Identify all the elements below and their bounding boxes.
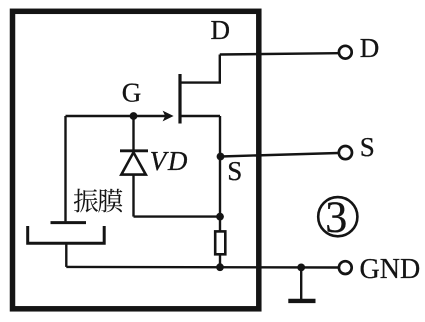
- node: S junction: [217, 153, 225, 161]
- svg-text:D: D: [360, 33, 380, 63]
- wire: source vertical rail: [219, 116, 221, 232]
- ground symbol stem: [300, 267, 302, 299]
- label: VD (diode designator): [150, 146, 189, 176]
- svg-text:G: G: [122, 78, 142, 108]
- diode VD cathode bar: [120, 149, 148, 152]
- label: S (source node, inside case): [227, 156, 242, 186]
- wire: drain tap up to D lead: [181, 55, 220, 83]
- terminal D circle: [339, 46, 352, 59]
- resistor R (source bias): [215, 231, 225, 254]
- label: terminal D: [360, 33, 380, 63]
- svg-text:3: 3: [325, 193, 347, 242]
- label: G (gate node): [122, 78, 142, 108]
- transistor V1 gate arrow: [163, 111, 174, 122]
- wire: left vertical from G to diaphragm: [64, 116, 66, 221]
- svg-text:VD: VD: [150, 146, 189, 176]
- capacitor (electret diaphragm) top plate: [51, 221, 87, 224]
- label: terminal GND: [360, 254, 421, 285]
- node: resistor bottom junction on ground rail: [216, 263, 224, 271]
- wire: drain lead to terminal D: [220, 53, 338, 54]
- terminal S circle: [339, 146, 352, 159]
- wire: diode anode down: [132, 175, 134, 217]
- label: D (drain, inside case): [211, 15, 231, 45]
- transistor V1 channel bar: [178, 74, 181, 124]
- label: zhen-mo (diaphragm) char 2: [98, 189, 122, 213]
- wire: gate lead (node G horizontal): [66, 115, 169, 117]
- node: resistor top junction: [216, 213, 224, 221]
- node: ground branch junction: [297, 264, 305, 272]
- wire: transistor source tap: [180, 115, 220, 117]
- wire: gate node down to diode VD: [132, 116, 134, 150]
- ground symbol bar: [288, 299, 315, 303]
- node: gate junction G: [130, 112, 138, 120]
- label: zhen-mo (diaphragm) char 1: [74, 189, 98, 213]
- capacitor (electret diaphragm) bottom plate (back plate): [28, 226, 105, 243]
- terminal GND circle: [339, 261, 352, 274]
- svg-text:GND: GND: [360, 254, 421, 285]
- wire: ground rail to terminal GND: [66, 266, 338, 269]
- wire: source lead to terminal S: [221, 153, 339, 157]
- svg-text:S: S: [360, 132, 375, 162]
- wire: diaphragm back plate stem: [65, 243, 67, 267]
- label: circled 3 (figure number): [318, 193, 357, 242]
- microphone capsule case outline: [13, 11, 259, 309]
- svg-text:S: S: [227, 156, 242, 186]
- diode VD triangle (anode, pointing up): [121, 152, 146, 174]
- label: terminal S: [360, 132, 375, 162]
- svg-text:D: D: [211, 15, 231, 45]
- wire: resistor bottom lead: [219, 254, 221, 267]
- wire: diode bottom across to resistor top node: [134, 215, 221, 217]
